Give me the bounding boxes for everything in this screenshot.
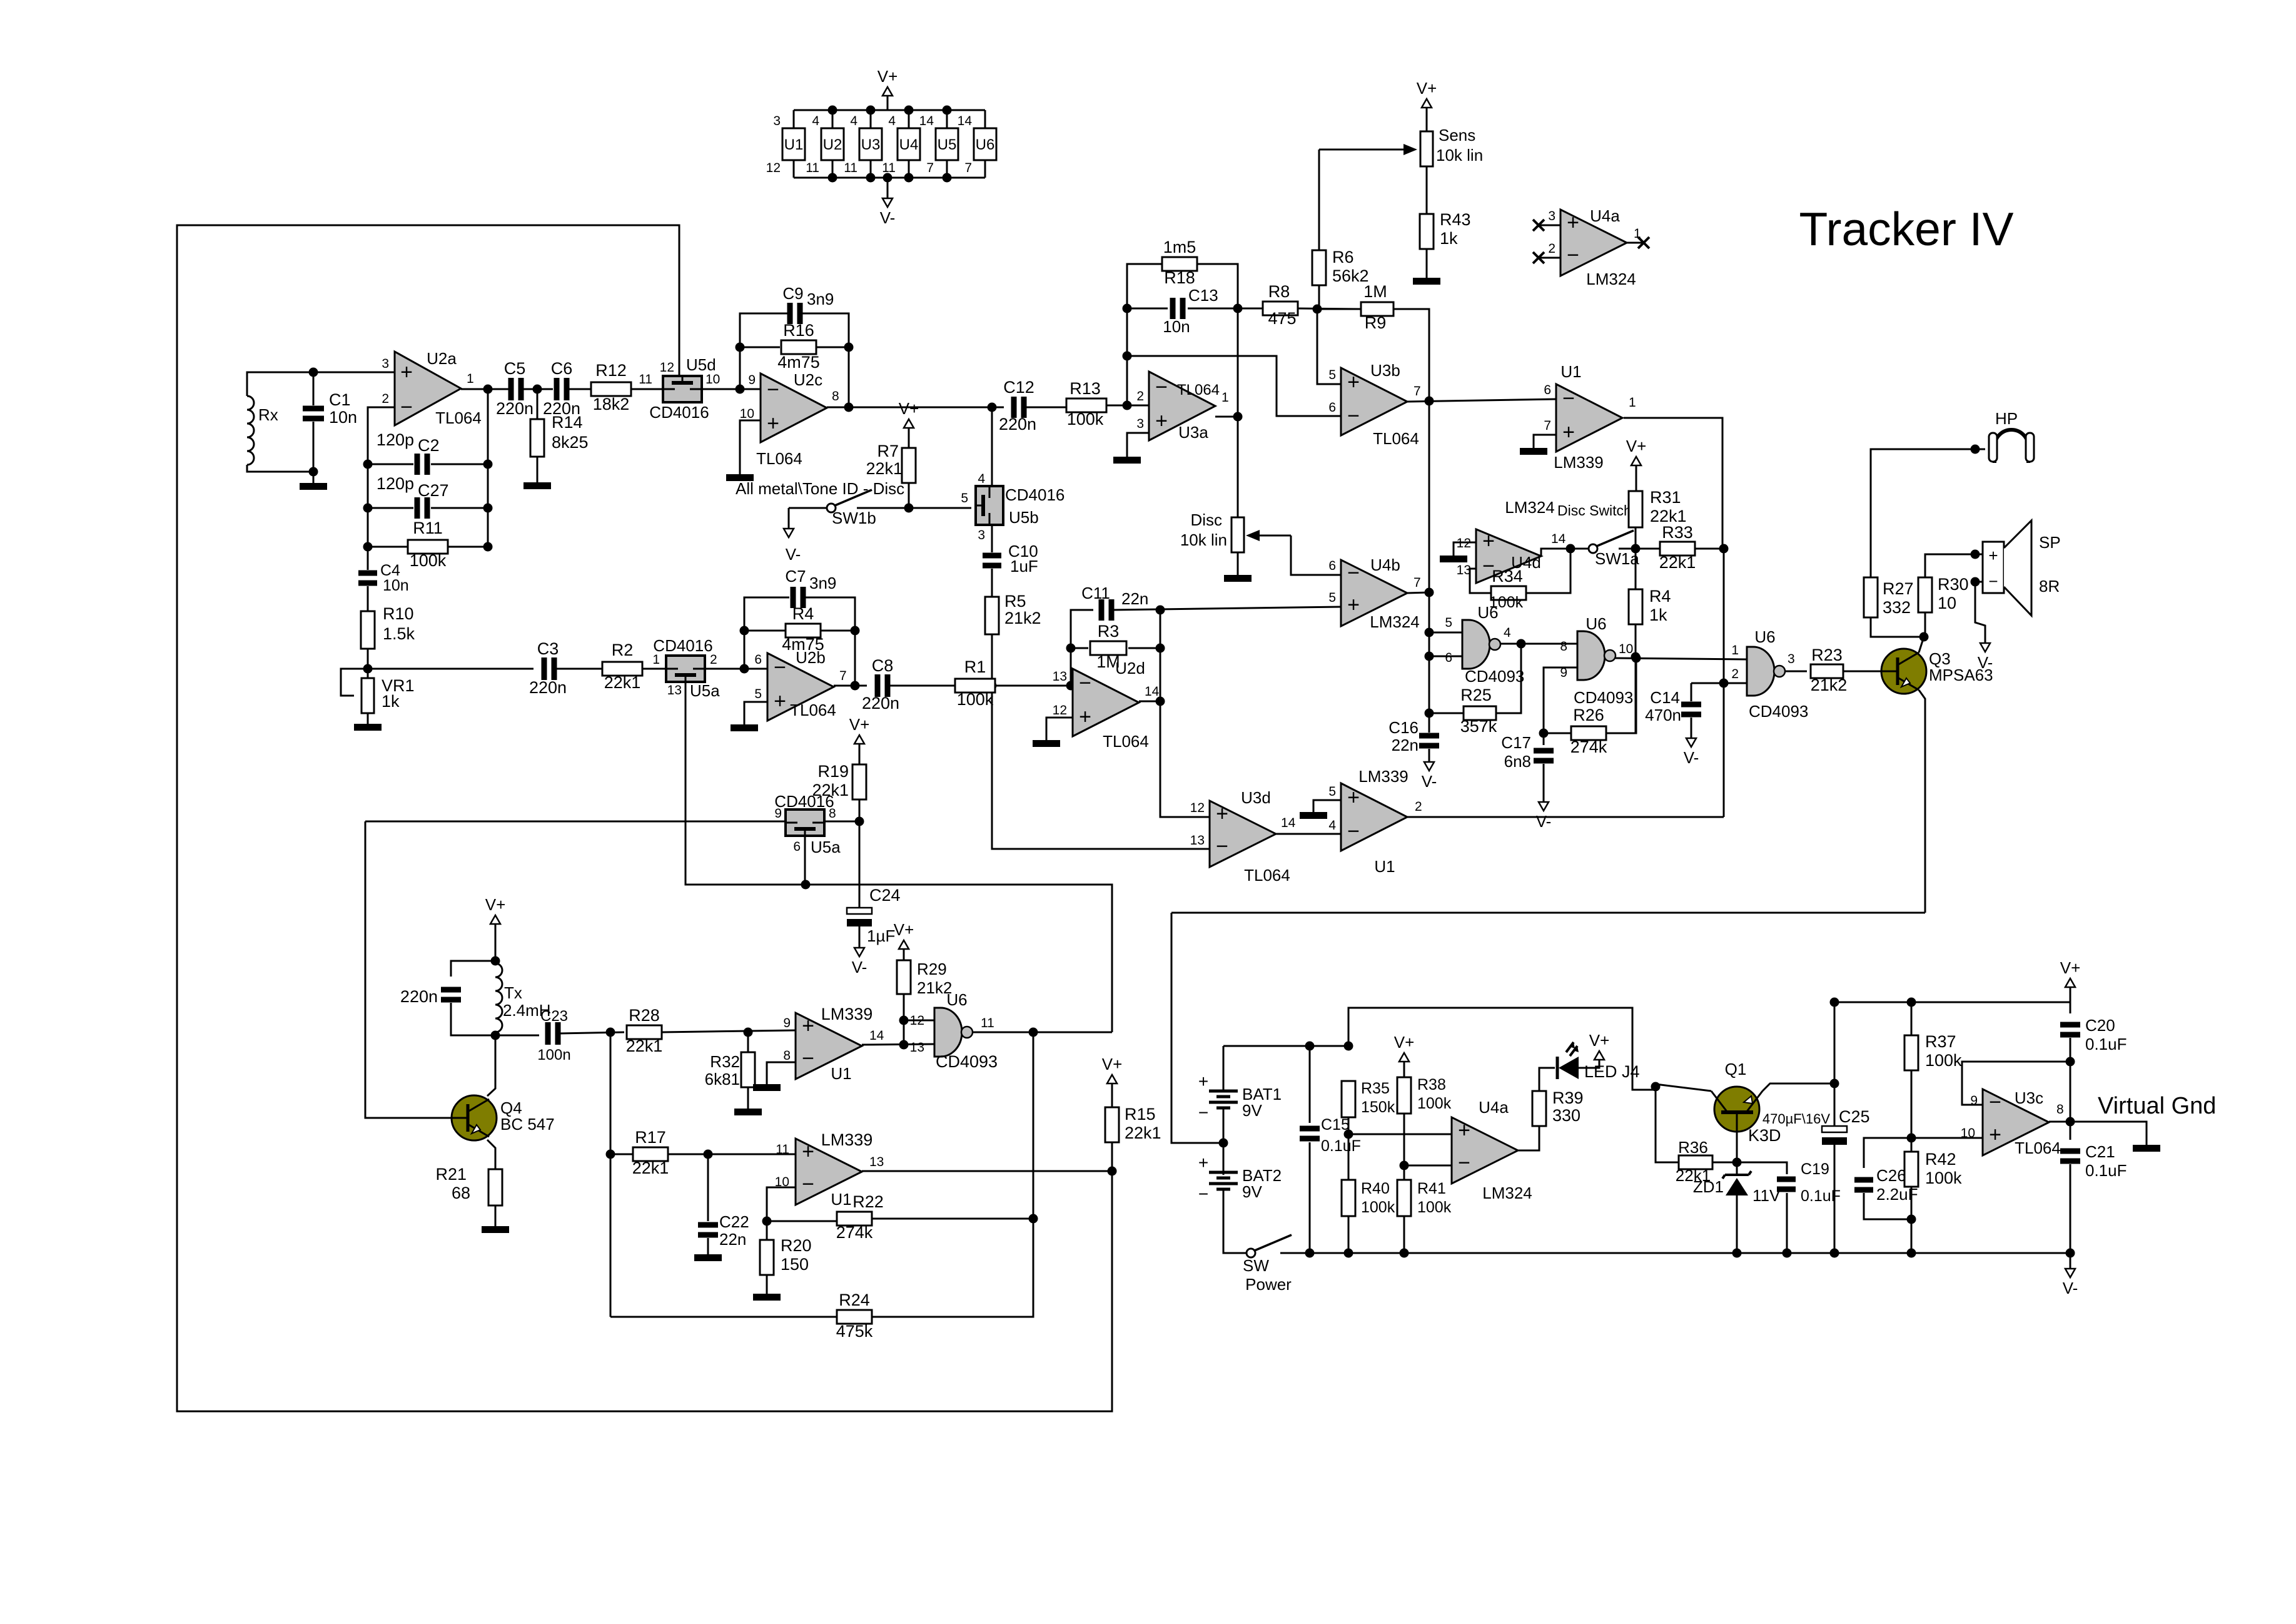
- junction U5a2 pin6: [801, 880, 811, 890]
- ground Disc pot: [1224, 575, 1252, 582]
- op-amp U3d: [1210, 801, 1276, 867]
- resistor R40: [1342, 1180, 1355, 1216]
- svg-text:Q1: Q1: [1725, 1060, 1747, 1078]
- resistor R15: [1105, 1107, 1119, 1142]
- IC supply box U4: [898, 128, 920, 160]
- wire: [313, 372, 315, 405]
- wire: [984, 110, 986, 128]
- capacitor C16: [1419, 733, 1439, 739]
- wire: [793, 160, 795, 178]
- wire: [859, 799, 861, 908]
- svg-text:14: 14: [1145, 684, 1160, 699]
- wire: [1426, 166, 1428, 214]
- svg-text:U6: U6: [1585, 614, 1606, 633]
- resistor R9 1M: [1361, 302, 1393, 316]
- svg-text:R41: R41: [1417, 1180, 1446, 1197]
- svg-text:22k1: 22k1: [626, 1037, 663, 1055]
- wire: [1925, 554, 1983, 577]
- wire: [973, 1032, 1112, 1033]
- resistor R29: [897, 960, 911, 994]
- svg-text:V-: V-: [786, 545, 801, 564]
- svg-text:2: 2: [382, 392, 389, 406]
- svg-text:R5: R5: [1004, 592, 1026, 611]
- svg-text:R6: R6: [1332, 248, 1354, 266]
- svg-text:R37: R37: [1925, 1032, 1956, 1051]
- IC supply box U6: [974, 128, 996, 160]
- wire: [903, 994, 905, 1045]
- svg-text:3n9: 3n9: [807, 290, 834, 308]
- svg-text:LM324: LM324: [1505, 498, 1555, 517]
- junction: [943, 106, 952, 115]
- capacitor C21: [2060, 1149, 2080, 1154]
- svg-text:R35: R35: [1361, 1080, 1390, 1097]
- svg-text:−: −: [1562, 387, 1575, 410]
- wire: [1313, 800, 1341, 812]
- V+ Sens: [1422, 99, 1432, 108]
- nand gate U6d CD4093: [934, 1008, 962, 1057]
- svg-text:470µF\16V: 470µF\16V: [1762, 1111, 1830, 1127]
- svg-text:1: 1: [1731, 643, 1739, 657]
- wire: [834, 685, 867, 687]
- svg-text:LM324: LM324: [1586, 270, 1636, 288]
- svg-text:V+: V+: [899, 399, 919, 418]
- wire: [368, 668, 534, 670]
- ground R21: [482, 1226, 509, 1233]
- junction SW1a/R31/R4: [1631, 544, 1641, 554]
- wire: [991, 569, 993, 597]
- wire: [448, 546, 488, 548]
- capacitor C20: [2060, 1022, 2080, 1028]
- svg-text:V+: V+: [2060, 958, 2081, 977]
- ground U2c +in: [726, 474, 754, 481]
- junction R3 left: [1066, 644, 1076, 653]
- junction Q3 collector: [1919, 632, 1929, 642]
- svg-text:SW1b: SW1b: [832, 509, 876, 527]
- op-amp U2b: [767, 653, 834, 721]
- resistor R33: [1660, 542, 1695, 556]
- wire: [1496, 644, 1521, 713]
- svg-text:330: 330: [1552, 1106, 1580, 1125]
- svg-text:+: +: [1567, 211, 1579, 235]
- svg-text:HP: HP: [1995, 409, 2018, 428]
- ground R14: [523, 482, 551, 489]
- wire: [859, 744, 861, 764]
- junction U4a -in: [1400, 1161, 1409, 1170]
- wire: [1543, 764, 1545, 802]
- svg-text:+: +: [1347, 786, 1360, 809]
- svg-text:274k: 274k: [1570, 738, 1607, 756]
- capacitor C22: [698, 1222, 718, 1228]
- svg-text:21k2: 21k2: [1811, 676, 1848, 694]
- capacitor C8: [875, 674, 881, 697]
- svg-text:V+: V+: [1589, 1031, 1610, 1050]
- wire: [1024, 407, 1066, 409]
- svg-text:22k1: 22k1: [866, 459, 903, 478]
- junction R29 bottom / U6d in13: [899, 1040, 909, 1050]
- wire: [707, 1154, 709, 1221]
- capacitor C7: [791, 587, 796, 608]
- svg-text:−: −: [400, 395, 413, 419]
- wire: [740, 313, 789, 389]
- resistor R26: [1571, 726, 1606, 740]
- junction R40 bottom: [1344, 1249, 1353, 1258]
- wire: [537, 389, 539, 419]
- comparator U1c LM339: [796, 1013, 862, 1079]
- wire: [367, 713, 369, 724]
- svg-text:U6: U6: [1754, 627, 1775, 646]
- svg-text:CD4093: CD4093: [936, 1052, 998, 1071]
- wire: [1723, 549, 1725, 817]
- wire: [487, 1032, 495, 1096]
- svg-text:C14: C14: [1650, 688, 1680, 707]
- coil Rx: [247, 396, 254, 465]
- wire: [1518, 1126, 1539, 1150]
- wire: [1106, 405, 1149, 407]
- svg-text:R36: R36: [1678, 1138, 1708, 1157]
- svg-text:C22: C22: [719, 1212, 749, 1231]
- svg-text:U4a: U4a: [1479, 1098, 1509, 1117]
- wire: [537, 457, 539, 482]
- wire: [431, 507, 488, 509]
- wire: [908, 160, 910, 178]
- wire: [1188, 308, 1265, 310]
- junction to U3b -in: [1123, 352, 1132, 361]
- svg-text:3: 3: [1788, 652, 1795, 666]
- svg-text:150: 150: [781, 1255, 809, 1274]
- potentiometer Disc 10k lin: [1231, 517, 1244, 552]
- wire: [1318, 285, 1320, 309]
- junction R16 right: [844, 343, 854, 352]
- svg-text:470n: 470n: [1645, 706, 1681, 724]
- svg-text:V-: V-: [1422, 772, 1437, 791]
- op-amp U4a power: [1452, 1117, 1518, 1184]
- svg-text:120p: 120p: [377, 430, 414, 449]
- svg-text:C5: C5: [504, 359, 526, 378]
- wire: [1454, 542, 1476, 556]
- svg-text:C11: C11: [1081, 584, 1110, 602]
- V+ R7: [904, 419, 914, 428]
- wire: [1919, 690, 1925, 913]
- svg-text:+: +: [767, 412, 779, 435]
- svg-text:CD4093: CD4093: [1574, 688, 1633, 707]
- node U6a out: [1517, 639, 1526, 649]
- wire: [685, 682, 1112, 1032]
- wire: [744, 597, 789, 669]
- wire: [1619, 548, 1660, 550]
- svg-text:22k1: 22k1: [812, 781, 849, 799]
- svg-text:8R: 8R: [2039, 577, 2060, 596]
- wire: [2070, 1002, 2071, 1013]
- V+ R19: [854, 735, 864, 744]
- svg-text:−: −: [1989, 1090, 2001, 1114]
- svg-text:CD4016: CD4016: [1005, 485, 1065, 504]
- wire: [567, 388, 591, 390]
- svg-text:U3d: U3d: [1241, 788, 1271, 807]
- svg-text:8: 8: [2056, 1102, 2064, 1117]
- svg-text:2.2uF: 2.2uF: [1876, 1185, 1918, 1204]
- svg-text:CD4093: CD4093: [1465, 667, 1524, 686]
- svg-text:4: 4: [1328, 818, 1336, 833]
- wire: [1429, 401, 1430, 733]
- nand gate U6a CD4093: [1462, 620, 1490, 669]
- wire: [487, 1140, 495, 1169]
- wire: [1785, 671, 1807, 672]
- svg-text:C2: C2: [418, 436, 440, 455]
- wire: [1111, 1084, 1113, 1107]
- svg-text:Rx: Rx: [258, 405, 278, 424]
- svg-text:220n: 220n: [529, 678, 567, 697]
- svg-text:0.1uF: 0.1uF: [2085, 1035, 2127, 1053]
- svg-text:C21: C21: [2085, 1142, 2115, 1161]
- junction R3/C11 left rail: [1066, 681, 1076, 691]
- resistor R30: [1918, 577, 1932, 612]
- capacitor C23: [545, 1022, 551, 1045]
- junction battery mid: [1219, 1139, 1228, 1148]
- svg-text:R23: R23: [1811, 646, 1843, 664]
- capacitor C2: [415, 454, 420, 475]
- svg-text:R22: R22: [852, 1192, 884, 1211]
- svg-text:8: 8: [783, 1048, 791, 1063]
- junction R4 / gate output: [1631, 652, 1641, 662]
- wire: [1834, 1002, 2070, 1003]
- wire: [1636, 465, 1637, 491]
- svg-text:V-: V-: [1978, 653, 1993, 672]
- svg-text:6: 6: [793, 840, 801, 854]
- wire: [1407, 399, 1556, 402]
- wire: [832, 160, 834, 178]
- svg-text:5: 5: [754, 687, 762, 701]
- wire: [487, 389, 489, 547]
- wire: [1919, 637, 1924, 652]
- svg-text:TL064: TL064: [1103, 732, 1149, 751]
- wire: [522, 388, 553, 390]
- wire: [313, 472, 315, 483]
- junction: [904, 173, 914, 183]
- svg-text:−: −: [1198, 1184, 1208, 1204]
- svg-text:11: 11: [844, 161, 857, 175]
- wire: [1606, 658, 1636, 733]
- svg-text:U4: U4: [899, 136, 919, 153]
- svg-text:100k: 100k: [1925, 1169, 1962, 1187]
- wire: [1393, 309, 1429, 401]
- junction U4b out: [1425, 588, 1434, 597]
- svg-text:+: +: [802, 1140, 814, 1164]
- node U3a out: [1233, 412, 1243, 422]
- junction U5b pin4: [988, 403, 997, 412]
- wire: [1695, 548, 1724, 550]
- wire: [1128, 647, 1160, 649]
- wire: [2070, 1038, 2071, 1122]
- svg-text:21k2: 21k2: [1004, 609, 1041, 627]
- wire: [1223, 1189, 1247, 1253]
- junction ZD1 top: [1732, 1158, 1742, 1167]
- svg-text:−: −: [1347, 404, 1360, 428]
- svg-text:C19: C19: [1801, 1160, 1829, 1178]
- svg-text:9: 9: [748, 373, 756, 387]
- svg-text:6: 6: [1328, 559, 1336, 573]
- svg-text:LM339: LM339: [1358, 767, 1408, 786]
- comparator U1d LM339: [796, 1139, 862, 1205]
- wire: [1348, 1134, 1452, 1135]
- junction: [866, 173, 876, 183]
- wire: [1579, 1060, 1599, 1068]
- svg-text:R11: R11: [413, 519, 443, 537]
- wire: [341, 669, 368, 696]
- svg-text:12: 12: [1190, 801, 1205, 815]
- svg-text:R26: R26: [1573, 706, 1604, 724]
- svg-text:SW: SW: [1243, 1256, 1269, 1275]
- wire: [1429, 656, 1462, 657]
- junction C25 bottom: [1830, 1249, 1839, 1258]
- svg-text:1uF: 1uF: [1010, 557, 1038, 576]
- wire: [313, 422, 315, 472]
- svg-text:2: 2: [1136, 389, 1144, 403]
- wire: [1834, 1002, 1836, 1126]
- svg-text:6: 6: [1328, 400, 1336, 415]
- junction R18 left rail bottom: [1123, 401, 1132, 410]
- svg-text:R31: R31: [1650, 488, 1681, 507]
- svg-text:7: 7: [839, 669, 847, 683]
- wire: [767, 1062, 796, 1084]
- wire: [1975, 582, 1985, 643]
- switch SW1a: [1589, 544, 1597, 553]
- svg-text:U5a: U5a: [690, 681, 720, 700]
- svg-text:13: 13: [869, 1155, 884, 1169]
- wire: [368, 407, 395, 464]
- wire: [1403, 1114, 1405, 1180]
- wire: [872, 1032, 1033, 1317]
- wire: [1911, 1187, 1913, 1253]
- svg-text:220n: 220n: [999, 415, 1036, 434]
- wire: [995, 685, 1073, 687]
- wire: [1112, 607, 1341, 610]
- node U2c out: [844, 403, 854, 412]
- wire: [431, 464, 488, 465]
- wire: [1864, 1138, 1911, 1168]
- junction ZD1 bottom: [1732, 1249, 1742, 1258]
- node U4d out: [1566, 544, 1575, 554]
- wire: [247, 372, 395, 396]
- svg-text:2: 2: [1731, 667, 1739, 681]
- svg-text:14: 14: [1281, 816, 1296, 830]
- svg-text:R39: R39: [1552, 1089, 1584, 1107]
- wire: [870, 110, 872, 128]
- wire: [832, 110, 834, 128]
- svg-text:U4b: U4b: [1370, 556, 1400, 574]
- wire: [1470, 569, 1491, 593]
- svg-text:220n: 220n: [400, 987, 438, 1006]
- svg-text:V+: V+: [894, 920, 914, 939]
- wire: [1786, 1193, 1788, 1253]
- svg-text:−: −: [767, 378, 779, 402]
- analog switch U5a CD4016: [666, 656, 705, 682]
- wire: [367, 464, 369, 570]
- resistor R38: [1397, 1077, 1411, 1114]
- junction R22 right: [1029, 1214, 1038, 1224]
- junction R14 top: [533, 385, 542, 394]
- wire: [744, 702, 767, 724]
- svg-text:9V: 9V: [1242, 1101, 1262, 1120]
- wire: [908, 483, 910, 508]
- wire: [740, 420, 761, 474]
- ground C22: [694, 1254, 722, 1261]
- wire: [1171, 912, 1925, 914]
- wire: [1544, 733, 1571, 734]
- wire: [1298, 308, 1361, 309]
- wire: [992, 634, 1210, 849]
- svg-text:U5: U5: [938, 136, 957, 153]
- svg-text:R4: R4: [792, 604, 814, 623]
- wire: [1348, 1117, 1350, 1180]
- wire: [1111, 1142, 1113, 1171]
- wire: [903, 949, 905, 961]
- IC supply box U1: [782, 128, 805, 160]
- svg-text:Disc: Disc: [1190, 510, 1222, 529]
- wire: [1543, 733, 1545, 745]
- resistor R14: [530, 419, 544, 457]
- IC supply box U3: [859, 128, 882, 160]
- wire: [1160, 610, 1210, 817]
- svg-text:11V: 11V: [1752, 1186, 1781, 1205]
- x marks U4a: [1533, 220, 1544, 231]
- V+ R31: [1631, 457, 1641, 465]
- ground C1: [300, 483, 327, 490]
- svg-text:2: 2: [710, 652, 717, 667]
- svg-text:U2a: U2a: [427, 349, 457, 368]
- svg-text:K3D: K3D: [1748, 1126, 1781, 1145]
- svg-text:C17: C17: [1501, 733, 1531, 752]
- capacitor C4: [358, 571, 377, 576]
- svg-text:TL064: TL064: [1373, 429, 1419, 448]
- wire: [991, 407, 993, 486]
- wire: [1127, 433, 1149, 457]
- transistor Q3 MPSA63: [1881, 649, 1926, 694]
- svg-text:100n: 100n: [537, 1047, 570, 1063]
- junction R3/C11 right rail: [1156, 606, 1165, 615]
- resistor R31: [1629, 491, 1642, 527]
- svg-text:BC 547: BC 547: [500, 1115, 555, 1134]
- svg-text:V-: V-: [880, 208, 896, 227]
- wire: [1691, 683, 1692, 701]
- svg-text:332: 332: [1883, 598, 1911, 617]
- svg-text:+: +: [1216, 802, 1228, 826]
- svg-text:R16: R16: [783, 321, 814, 340]
- svg-text:7: 7: [964, 161, 972, 175]
- svg-text:Tx: Tx: [504, 983, 522, 1002]
- wire: [1539, 1068, 1555, 1091]
- wire: [368, 464, 413, 465]
- op-amp U3a: [1149, 372, 1215, 440]
- wire: [707, 1238, 709, 1254]
- svg-text:357k: 357k: [1460, 717, 1497, 736]
- junction R15 bottom: [1108, 1167, 1117, 1176]
- svg-text:22k1: 22k1: [1125, 1124, 1161, 1142]
- analog switch U5d CD4016: [663, 376, 702, 402]
- wire: [766, 1275, 768, 1294]
- wire: [1046, 718, 1073, 740]
- capacitor C6: [554, 378, 560, 400]
- wire: [1348, 1008, 1711, 1091]
- svg-text:C25: C25: [1839, 1107, 1870, 1126]
- wire: [1280, 1252, 2070, 1254]
- svg-text:14: 14: [958, 114, 973, 128]
- junction C27 left: [363, 504, 373, 513]
- capacitor C12: [1011, 397, 1017, 418]
- transistor Q1 K3D: [1714, 1087, 1759, 1132]
- V- C16: [1424, 762, 1434, 771]
- wire: [1624, 418, 1722, 549]
- svg-text:+: +: [1562, 420, 1575, 444]
